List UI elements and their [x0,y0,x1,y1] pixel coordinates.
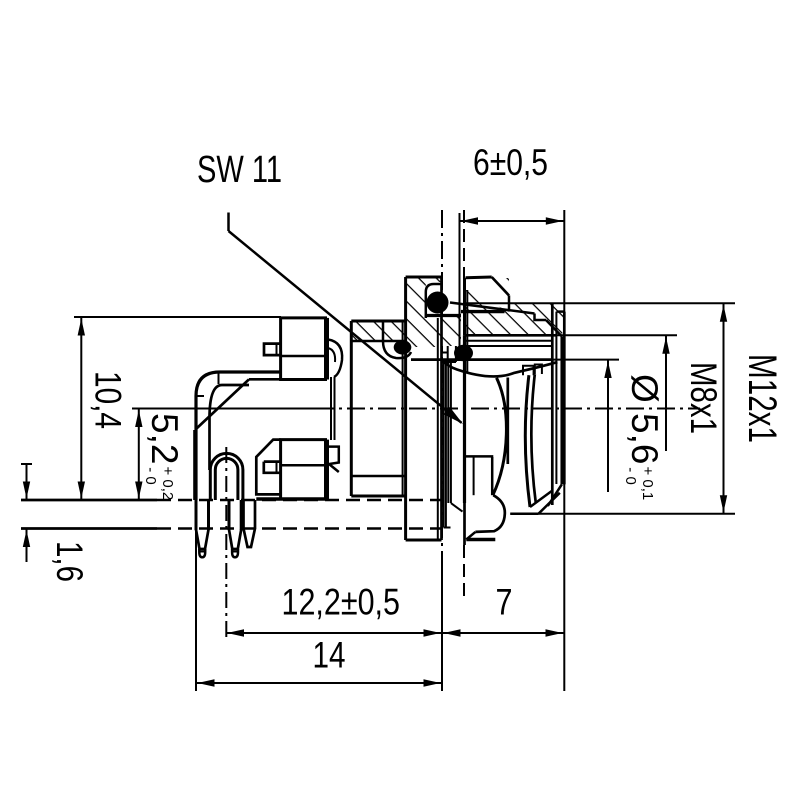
bore line 5,6 top [411,358,552,361]
rear ring corner chamfer [492,277,509,296]
o-ring seal section B [427,292,449,314]
dimension 6±0,5 [460,220,565,222]
extension line top y=317 [74,316,281,318]
lower block hook contact [328,447,339,472]
ring front top edge [556,310,564,313]
svg-text:6±0,5: 6±0,5 [473,142,548,183]
dimension 10,4 [80,317,82,500]
hex edge S-curve right twin [531,374,536,503]
extension line x=196 (bracket face) [195,508,197,691]
flange top edge [406,276,442,279]
pin 2 taper and tip [229,530,241,550]
dimension Ø5,6 +0,1/-0 half-arrow [607,360,609,492]
bracket outer edge double line [193,430,195,500]
bracket outer edge [196,372,281,500]
o-ring seal section C [454,345,473,361]
pocket bottom edge [426,314,461,317]
rear ring pentagon inner edge [508,296,511,312]
section hatch gap panel area [442,316,462,347]
body left wall [350,321,353,496]
hex top heavy line [461,310,505,313]
dimension 14 [196,682,442,684]
M8 crest / nut top face line [465,334,557,337]
flange bottom edge [406,539,442,542]
upper block hook contact [328,340,342,378]
upper block mid line [281,355,326,358]
body top edge [351,320,405,323]
pin 2 through hole [228,500,231,530]
nut bottom left face [463,503,466,545]
hex cone chamfer diagonal [450,303,535,314]
ring front chamfer bottom [548,484,562,506]
bracket inner edge horizontal [249,378,281,381]
nut belly arc top [443,361,557,377]
hex corner bottom bulge [475,495,504,532]
pin 3 rear taper [244,500,256,547]
lower block mid line [281,464,326,467]
hex edge S-curve right [525,375,530,507]
bottom hex step left [465,455,494,458]
M8 thread root line [465,340,553,342]
svg-text:1,6: 1,6 [49,541,90,582]
bracket inner edge [210,385,250,418]
pin 1 through hole [195,500,198,530]
white o-ring groove pocket [426,282,442,318]
dimension 7 [442,632,564,634]
centerline pin axis x=226 [225,447,227,641]
o-ring groove top [426,284,442,318]
pin 1 taper and tip [196,530,209,550]
leader line SW 11 [227,213,230,232]
M8 thread root line 2 [465,345,553,347]
pcb bottom surface [21,527,157,530]
extension line diameter 5,6 y=359.6 [552,359,619,361]
flange inner line [402,321,404,496]
extension line M12 top y=303.2 [465,302,735,304]
svg-text:M12x1: M12x1 [740,354,784,443]
lower block right edge [327,440,329,499]
o-ring seal section A (body groove) [383,321,411,358]
bottom step inner vertical [473,457,475,495]
bracket bend diagonal [197,379,250,428]
lower block snout [256,440,280,495]
dimension M12x1 [723,303,725,514]
bottom m12 line segment [510,513,538,516]
section hatch body wall top band [351,321,405,341]
rear ring top edge [466,276,492,280]
dimension 12,2±0,5 [226,632,443,634]
section hatch rear ring band [466,278,565,336]
upper hook inner [328,348,335,362]
nut bottom left diagonal [466,532,475,540]
white pentagon rear ring top face [466,277,509,312]
upper block right edge lines [327,318,329,380]
svg-text:7: 7 [496,582,513,623]
hex cone chamfer step [535,314,547,321]
flange right face [440,277,443,540]
extension line x=564 full right [563,210,565,691]
bottom chamfer diagonals [530,490,553,507]
pcb top surface [21,499,157,502]
centerline vertical flange face x=442 [441,210,443,556]
bracket inner vertical to arch [208,418,211,470]
nut left face [463,335,466,503]
thread relief steps [523,366,534,376]
section hatch flange [406,277,442,347]
svg-text:M8x1: M8x1 [683,362,724,434]
lower block bottom heavy edge [256,497,325,501]
body bottom edge [351,495,405,498]
lower block side bump [264,462,281,473]
washer step lines [442,352,448,354]
extension line x=459 [459,213,461,347]
nut right inner face [551,303,554,505]
upper contact block [281,318,326,380]
nut bottom edge heavy [466,538,495,541]
hex cone chamfer right diagonal [546,320,562,336]
hex edge vertical [506,378,509,465]
panel bottom chamfer [451,503,463,512]
flange inner right line [437,318,439,540]
svg-text:10,4: 10,4 [88,371,129,429]
body hatch boundary top [352,340,406,343]
flange left face [404,277,407,540]
centerline horizontal axis [316,408,700,410]
extension line M8 y=335.3 [556,334,677,336]
panel lines lower [443,362,445,528]
svg-text:12,2±0,5: 12,2±0,5 [282,582,401,623]
svg-text:SW 11: SW 11 [197,149,282,191]
hidden line x=464 below body [463,545,465,598]
dimension 1,6 [21,463,32,465]
upper block side bump [264,344,281,356]
extension line x=442 lower solid [441,556,443,691]
dimension 5,2 +0,2/-0 [138,409,140,501]
ring front face [560,336,563,484]
pin U-bend outer arc [210,453,243,500]
svg-text:14: 14 [313,635,346,676]
rear ring left face [463,278,466,336]
hidden line x=464 top [463,210,465,288]
hex edge S-curve left [493,378,507,495]
extension line M12 bottom y=513.8 [510,513,735,515]
lower contact block [281,440,326,499]
pin U-bend inner arc [215,458,238,500]
dimension M8x1 half-arrow [665,335,667,451]
body hatch boundary bottom [352,475,406,478]
body inner wall lines [334,377,336,440]
bracket tangent ticks [196,395,204,397]
extension line y=408.5 left [132,408,316,410]
